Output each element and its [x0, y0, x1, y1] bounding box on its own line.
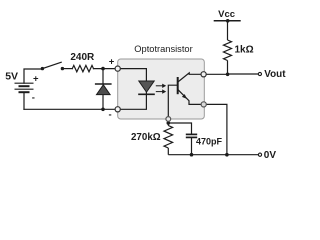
wire bottom-left rail — [24, 108, 116, 110]
junction diode bottom — [101, 108, 105, 112]
wire switch to 240R — [62, 68, 72, 70]
svg-text:470pF: 470pF — [196, 137, 223, 147]
LED D2 — [138, 81, 155, 94]
wire to Vout — [228, 73, 259, 75]
terminal pin emitter — [201, 102, 206, 107]
svg-text:+: + — [109, 56, 115, 67]
junction base node — [167, 121, 171, 125]
junction diode top — [101, 67, 105, 71]
svg-text:Vout: Vout — [264, 69, 286, 80]
resistor R2 1k — [224, 40, 232, 61]
switch S1 contact dots — [41, 67, 44, 70]
wire 240R to opto + terminal — [94, 68, 117, 70]
wire battery bottom — [23, 92, 25, 109]
svg-text:1kΩ: 1kΩ — [235, 45, 254, 56]
0V terminal — [258, 153, 261, 156]
terminal pin anode + — [115, 66, 120, 71]
battery B1 5V — [15, 83, 34, 92]
svg-text:Optotransistor: Optotransistor — [134, 44, 192, 54]
wire anode from + terminal — [118, 69, 147, 81]
base bar — [177, 78, 179, 93]
Vcc bar — [214, 20, 241, 22]
svg-text:-: - — [32, 93, 35, 104]
wire 1k to junction — [227, 61, 229, 75]
light arrow 2 — [156, 89, 166, 93]
junction collector/Vout — [226, 73, 230, 77]
terminal pin base — [166, 117, 171, 122]
wire 270k to rail — [167, 148, 169, 155]
wire emitter terminal right and down to 0V rail — [206, 104, 227, 154]
switch blade — [42, 62, 61, 68]
wire collector terminal to junction — [206, 73, 228, 75]
svg-text:270kΩ: 270kΩ — [131, 132, 161, 143]
svg-text:0V: 0V — [264, 150, 277, 161]
Vout terminal — [258, 72, 261, 75]
wire cap to rail — [191, 138, 193, 155]
wire base node to capacitor — [168, 123, 191, 134]
terminal pin collector — [201, 72, 206, 77]
0V rail — [168, 154, 258, 156]
wire battery top to switch — [24, 69, 42, 83]
diode D1 (protection, cathode up) — [95, 84, 112, 95]
emitter lead — [179, 90, 202, 104]
wire Vcc to 1k resistor — [227, 21, 229, 40]
resistor R3 270k — [164, 126, 173, 149]
wire diode bottom branch — [102, 95, 104, 110]
base lead down to base terminal — [168, 85, 177, 116]
svg-text:240R: 240R — [70, 52, 95, 63]
wire cathode to - terminal — [118, 92, 147, 109]
svg-text:Vcc: Vcc — [218, 9, 235, 20]
emitter arrow — [182, 94, 187, 99]
wire base terminal to junction — [167, 122, 169, 126]
junction at Vcc bar — [226, 19, 230, 23]
svg-text:+: + — [33, 74, 39, 85]
svg-text:5V: 5V — [5, 70, 18, 82]
terminal pin cathode - — [115, 107, 120, 112]
collector lead — [179, 73, 202, 82]
light arrow 1 — [156, 84, 166, 88]
LED internal wiring — [118, 69, 147, 110]
svg-text:-: - — [109, 110, 112, 121]
phototransistor Q1 — [168, 73, 201, 117]
resistor 240R — [72, 65, 93, 71]
optocoupler U1 body — [118, 59, 205, 119]
junction emitter/rail — [225, 153, 229, 157]
wire diode top branch — [102, 69, 104, 85]
capacitor C1 470pF — [186, 134, 197, 137]
junction cap/rail — [190, 153, 194, 157]
